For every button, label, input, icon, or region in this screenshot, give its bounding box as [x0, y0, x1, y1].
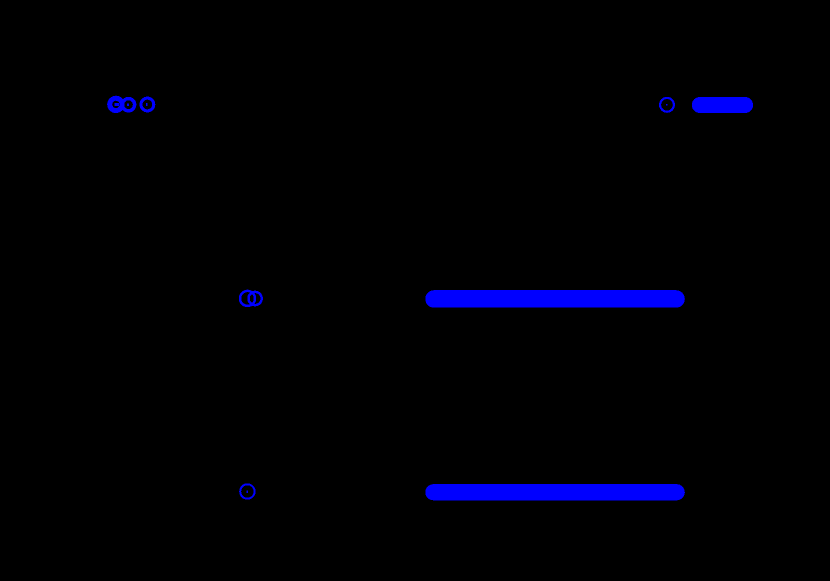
- transformer T2 right winding: [249, 292, 262, 305]
- busbar B2 (long thick bar, middle): [425, 290, 685, 308]
- transformer T1 right winding: [122, 99, 134, 111]
- transformer T1 (two overlapping circles, left winding): [110, 98, 122, 110]
- generator G2 (circle with centre dot, top right): [660, 98, 674, 112]
- busbar B3 (long thick bar, lower): [425, 484, 685, 500]
- generator G3 (circle with centre dot, lower): [240, 484, 254, 498]
- generator G1 (circle with centre dot): [141, 98, 154, 111]
- transformer T2 left winding: [240, 291, 255, 306]
- busbar B1 (short thick bar, top right): [692, 97, 753, 113]
